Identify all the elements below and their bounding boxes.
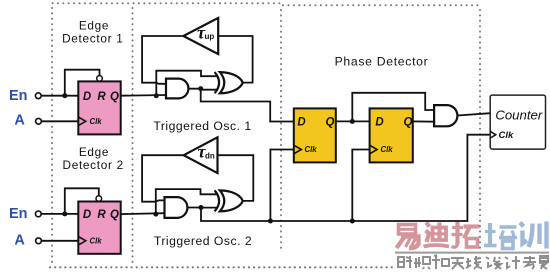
char 迪 xyxy=(424,223,450,247)
svg-text:dn: dn xyxy=(205,151,215,160)
watermark underline xyxy=(395,252,549,254)
clk wedge FF2 xyxy=(78,237,86,246)
delay buffer tau_up xyxy=(183,18,218,54)
svg-text:Q: Q xyxy=(110,91,119,103)
svg-text:Clk: Clk xyxy=(90,117,103,126)
wire: Q2 output to AND2 xyxy=(121,212,165,215)
clk wedge phase FF U1 xyxy=(294,145,302,154)
svg-text:Triggered Osc. 1: Triggered Osc. 1 xyxy=(153,119,251,133)
char 培 xyxy=(484,223,517,249)
wire: En1 input to D xyxy=(41,95,78,97)
node: Q2 junction xyxy=(153,212,158,217)
svg-text:Q: Q xyxy=(326,117,335,129)
char 拓 xyxy=(452,222,480,248)
svg-text:Triggered Osc. 2: Triggered Osc. 2 xyxy=(154,234,252,248)
svg-text:D: D xyxy=(375,117,383,129)
wire: tau_dn output down to AND2 top input xyxy=(142,155,184,202)
wire: A1 input to Clk xyxy=(42,120,79,122)
terminal En2 xyxy=(35,211,41,217)
svg-text:Counter: Counter xyxy=(495,108,543,123)
clk wedge phase FF U2 xyxy=(370,145,378,154)
wire: Q1 up to XOR1 top input xyxy=(156,71,218,96)
dashed box: edge detectors + oscillators top border xyxy=(53,2,282,4)
node: AND1 output junction xyxy=(198,86,203,91)
wire: clock rail up to phase FF1 Clk xyxy=(270,150,293,222)
wire: En1 feedback to R bubble xyxy=(65,70,100,96)
wire: FF1 Q up and over to phase AND top input xyxy=(352,93,434,122)
svg-text:Phase Detector: Phase Detector xyxy=(335,55,429,69)
R inversion bubble FF2 xyxy=(96,196,102,202)
svg-text:En: En xyxy=(9,88,28,104)
wire: phase AND output to counter xyxy=(458,113,491,115)
svg-text:Q: Q xyxy=(110,209,119,221)
dashed box: phase detector right border xyxy=(479,10,481,250)
svg-text:A: A xyxy=(14,112,25,128)
flip-flop edge detector 2 xyxy=(78,196,120,254)
svg-text:Clk: Clk xyxy=(499,130,515,141)
dashed bottom border xyxy=(50,266,392,268)
射 xyxy=(398,256,412,268)
wire: En2 feedback to R bubble xyxy=(65,188,99,214)
flip-flop phase detector U1 xyxy=(294,108,336,162)
terminal A1 xyxy=(36,118,42,124)
svg-text:R: R xyxy=(97,91,106,103)
wire: XOR2 output up to tau_dn input xyxy=(218,155,254,201)
second line 射频和天线设计专家 (approx glyphs) xyxy=(398,255,549,269)
svg-text:Q: Q xyxy=(404,117,413,129)
svg-text:A: A xyxy=(14,232,25,248)
wire: AND2 output to XOR2 bottom input xyxy=(187,207,218,209)
svg-text:D: D xyxy=(83,209,91,221)
线 xyxy=(466,256,482,269)
node: AND2 output junction xyxy=(199,205,204,210)
terminal A2 xyxy=(36,238,42,244)
AND gate phase detector xyxy=(434,105,457,126)
char 训 xyxy=(520,222,547,249)
svg-text:Clk: Clk xyxy=(305,145,318,154)
设 xyxy=(486,257,501,269)
wire: Q2 up to XOR2 top input xyxy=(156,189,218,214)
wire: AND1 output to XOR1 bottom input xyxy=(187,89,218,90)
wire: tau_up output down to AND1 top input xyxy=(142,36,183,84)
svg-text:En: En xyxy=(9,206,28,222)
wire: Q1 output to AND1 xyxy=(121,94,166,97)
家 xyxy=(539,256,549,269)
dashed box left border xyxy=(51,8,53,266)
wire: XOR1 output up to tau_up input xyxy=(218,36,252,83)
node: phase FF1 Q junction xyxy=(350,119,355,124)
wire: phase FF1 Q to FF2 D xyxy=(336,120,370,122)
node: clock rail to FF2 clk xyxy=(350,219,355,224)
flip-flop phase detector U2 xyxy=(370,108,413,162)
char 易 xyxy=(397,225,419,249)
R inversion bubble FF1 xyxy=(97,76,103,82)
wire: A2 input to Clk xyxy=(42,240,79,242)
svg-text:up: up xyxy=(205,32,215,41)
wire: phase FF2 Q to phase AND bottom input xyxy=(413,120,434,122)
AND gate osc1 xyxy=(166,79,188,99)
clk wedge FF1 xyxy=(78,117,86,126)
node: clock rail to FF1 clk xyxy=(268,219,273,224)
counter box xyxy=(490,95,545,149)
node: En2/R junction xyxy=(62,211,67,216)
svg-text:Clk: Clk xyxy=(90,236,103,245)
dashed separator: phase detector left border xyxy=(280,10,282,252)
dashed separator between edge detectors and oscillators xyxy=(132,8,134,266)
XOR gate osc2 xyxy=(215,190,243,211)
svg-text:Detector 2: Detector 2 xyxy=(62,158,123,172)
terminal En1 xyxy=(35,93,41,99)
wire: En2 input to D xyxy=(41,213,78,215)
XOR gate osc1 xyxy=(215,72,243,93)
天 xyxy=(451,258,464,269)
flip-flop edge detector 1 xyxy=(78,76,120,135)
专 xyxy=(523,256,536,269)
svg-text:Detector 1: Detector 1 xyxy=(62,32,123,46)
delay buffer tau_dn xyxy=(184,137,218,173)
计 xyxy=(505,256,520,269)
wire: osc2 output down to long clock rail xyxy=(201,135,490,221)
wire: osc1 output down and right to phase FF1 D xyxy=(201,89,294,122)
svg-text:Clk: Clk xyxy=(381,145,394,154)
和 xyxy=(432,255,449,269)
node: Q1 junction xyxy=(154,93,159,98)
svg-text:D: D xyxy=(83,91,91,103)
wire: clock rail up to phase FF2 Clk xyxy=(352,150,369,222)
svg-text:Edge: Edge xyxy=(79,19,109,33)
AND gate osc2 xyxy=(165,197,188,218)
频 xyxy=(414,257,430,269)
clk wedge counter xyxy=(490,131,496,138)
svg-text:R: R xyxy=(97,209,106,221)
svg-text:D: D xyxy=(297,117,305,129)
node: En1/R junction xyxy=(62,93,67,98)
